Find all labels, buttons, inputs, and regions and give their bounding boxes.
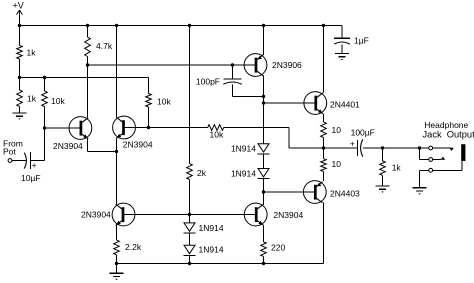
wire C1 up to Q1 base — [44, 128, 46, 161]
label C3 1uF — [354, 36, 369, 46]
label R1 1k — [27, 48, 37, 58]
terminal jack sleeve contact — [429, 168, 433, 172]
svg-text:10: 10 — [332, 125, 342, 135]
wire R10 to Q7 emitter — [323, 172, 325, 182]
wire Q2 emitter down — [116, 138, 118, 151]
node Q3/Q4 base junction — [188, 213, 191, 216]
wire Q6 base — [264, 102, 304, 104]
capacitor C3 1uF — [334, 38, 350, 53]
capacitor C4 100uF — [358, 139, 363, 156]
wire Q3 emitter down — [116, 225, 118, 240]
wire Q6 collector to rail — [323, 26, 325, 93]
wire output to R10 — [323, 148, 325, 159]
wire output line left — [289, 147, 357, 149]
svg-text:Jack Output: Jack Output — [423, 130, 474, 140]
wire Q5 emitter to rail — [263, 26, 265, 55]
wire second rail — [20, 77, 149, 79]
resistor R10 10 — [321, 159, 327, 172]
label R9 10 — [332, 125, 342, 135]
node rail2 junctions — [18, 76, 46, 79]
label D2 1N914 — [231, 168, 256, 178]
wire bottom rail — [117, 263, 324, 265]
wire Q4 collector up — [263, 192, 265, 204]
resistor R9 10 — [321, 122, 327, 138]
resistor R3 4.7k — [85, 37, 91, 56]
wire R5 to feedback node — [148, 107, 150, 128]
label R5 10k — [157, 97, 171, 107]
wire Q2 collector to rail — [116, 26, 118, 118]
wire D1 to D2 — [263, 154, 265, 169]
wire node A down to Q1 collector — [87, 65, 89, 118]
svg-text:+: + — [32, 161, 37, 170]
wire R11 to bottom rail — [263, 256, 265, 263]
label Q6 2N4401 — [330, 100, 360, 110]
svg-text:100pF: 100pF — [196, 77, 220, 87]
resistor R5 10k — [146, 94, 152, 108]
svg-text:10: 10 — [332, 159, 342, 169]
wire R4 to Q1 base node — [44, 107, 46, 129]
transistor Q2 2N3904 — [113, 116, 136, 139]
svg-text:2N3904: 2N3904 — [81, 210, 111, 220]
svg-text:Pot: Pot — [3, 147, 16, 157]
wire R12 to ground — [382, 175, 384, 186]
terminal jack tip contact — [429, 146, 433, 150]
svg-text:1N914: 1N914 — [199, 223, 224, 233]
svg-text:1N914: 1N914 — [199, 245, 224, 255]
svg-text:10µF: 10µF — [21, 173, 41, 183]
label From Pot — [3, 139, 23, 157]
node output junction — [322, 146, 325, 149]
wire load to R12 — [382, 148, 384, 161]
wire Q2 base feedback line — [125, 127, 290, 129]
node C2 junction — [262, 95, 265, 98]
wire feedback corner down — [288, 128, 290, 149]
svg-text:10k: 10k — [210, 130, 224, 140]
wire rail2 to R4 — [44, 78, 46, 92]
label R4 10k — [51, 96, 65, 106]
label D4 1N914 — [199, 245, 224, 255]
resistor R12 1k — [380, 161, 386, 176]
label C1 10uF — [21, 173, 41, 183]
diode D4 1N914 — [184, 245, 196, 255]
resistor R2 1k — [17, 90, 23, 107]
wire Q7 base — [264, 191, 304, 193]
label C2 100pF — [196, 77, 220, 87]
ground left divider — [13, 113, 27, 120]
wire R3 to node A — [87, 57, 89, 66]
wire R7 to bottom rail — [116, 255, 118, 264]
svg-text:2N4403: 2N4403 — [330, 189, 360, 199]
svg-text:+V: +V — [13, 1, 24, 11]
wire rail2 to R2 — [19, 78, 21, 91]
transistor Q1 2N3904 — [69, 117, 92, 140]
transistor Q7 2N4403 — [303, 181, 326, 204]
resistor R8 2k — [187, 164, 193, 180]
wire node A to Q5 base — [88, 64, 245, 66]
wire jack tip contact arm — [433, 147, 451, 149]
label R7 2.2k — [125, 242, 142, 252]
label C4 plus — [350, 140, 355, 149]
label R10 10 — [332, 159, 342, 169]
resistor R6 10k feedback — [208, 125, 224, 131]
terminal input — [8, 159, 12, 163]
node 1k load junction — [381, 146, 384, 149]
wire rail1 down to R8 — [189, 26, 191, 164]
label Q2 2N3904 — [123, 140, 153, 150]
svg-text:2N3904: 2N3904 — [53, 141, 83, 151]
svg-text:Headphone: Headphone — [424, 120, 468, 130]
diode D1 1N914 — [258, 144, 270, 154]
wire R2 to ground — [19, 107, 21, 113]
node emitter junction — [115, 150, 118, 153]
wire jack down to ring row — [419, 148, 421, 160]
jack tip spring arrow — [449, 148, 454, 151]
label R6 10k — [210, 130, 224, 140]
label Q1 2N3904 — [53, 141, 83, 151]
wire rail to C3 — [341, 26, 343, 39]
wire Q3 base line — [124, 214, 245, 216]
svg-text:2N3906: 2N3906 — [272, 60, 302, 70]
wire +V to R1 — [19, 26, 21, 46]
wire Q1 base — [45, 127, 77, 129]
wire input to C1 — [12, 160, 26, 162]
wire sleeve row left — [420, 169, 429, 171]
resistor R4 10k — [42, 91, 48, 107]
node Q1 base junction — [43, 126, 46, 129]
wire jack sleeve to body — [433, 161, 463, 170]
transistor Q5 2N3906 — [244, 54, 267, 77]
wire Q5 collector down — [263, 75, 265, 143]
svg-text:1k: 1k — [27, 94, 37, 104]
node Q7 base junction — [262, 190, 265, 193]
diode D3 1N914 — [184, 223, 196, 233]
wire Q1 emitter down — [87, 139, 89, 152]
svg-text:1k: 1k — [27, 48, 37, 58]
wire sleeve to ground — [419, 170, 421, 188]
resistor R7 2.2k — [114, 240, 120, 255]
svg-text:2.2k: 2.2k — [125, 242, 142, 252]
label D3 1N914 — [199, 223, 224, 233]
svg-text:220: 220 — [271, 243, 285, 253]
transistor Q3 2N3904 — [112, 203, 135, 226]
svg-text:100µF: 100µF — [351, 128, 375, 138]
svg-text:1N914: 1N914 — [231, 168, 256, 178]
wire jack ring contact arm — [433, 159, 441, 161]
svg-text:1µF: 1µF — [354, 36, 369, 46]
svg-text:2N3904: 2N3904 — [123, 140, 153, 150]
wire output line right — [363, 147, 429, 149]
label R8 2k — [197, 168, 207, 178]
resistor R11 220 — [261, 242, 267, 257]
svg-text:4.7k: 4.7k — [96, 41, 113, 51]
label Q5 2N3906 — [272, 60, 302, 70]
wire Q7 collector down — [323, 202, 325, 263]
node jack junction — [418, 146, 421, 149]
label R12 1k — [392, 163, 402, 173]
power +V arrow — [17, 10, 23, 26]
node Q2 base 10k junction — [147, 126, 150, 129]
node Q6 base junction — [262, 101, 265, 104]
wire Q6 emitter down — [323, 114, 325, 122]
node top rail junctions — [18, 24, 325, 27]
label C4 100uF — [351, 128, 375, 138]
label C1 plus — [32, 161, 37, 170]
svg-text:2k: 2k — [197, 168, 207, 178]
label D1 1N914 — [231, 144, 256, 154]
wire bottom rail to ground — [116, 264, 118, 274]
svg-text:1N914: 1N914 — [231, 144, 256, 154]
wire top supply rail — [20, 25, 343, 27]
wire rail to R3 — [87, 26, 89, 38]
wire D4 to bottom rail — [189, 255, 191, 263]
wire Q1 emitter to Q2 emitter — [88, 151, 117, 153]
label Q7 2N4403 — [330, 189, 360, 199]
svg-text:10k: 10k — [157, 97, 171, 107]
wire R8 to base node — [189, 180, 191, 215]
jack body — [461, 144, 465, 161]
node 100pF tap — [231, 63, 234, 66]
capacitor C1 10uF — [24, 152, 44, 169]
wire rail2 corner down — [148, 78, 150, 94]
ground R12 — [376, 186, 390, 193]
svg-text:1k: 1k — [392, 163, 402, 173]
terminal jack ring contact — [429, 158, 433, 162]
ground bottom rail — [110, 273, 124, 280]
ground C3 — [335, 54, 349, 61]
diode D2 1N914 — [258, 169, 270, 179]
label Q4 2N3904 — [273, 210, 303, 220]
label R3 4.7k — [96, 41, 113, 51]
ground jack — [413, 188, 427, 195]
wire base node to D3 — [189, 215, 191, 223]
node A Q1 collector junction — [86, 63, 89, 66]
svg-text:2N3904: 2N3904 — [273, 210, 303, 220]
capacitor C2 100pF — [223, 65, 263, 97]
wire R1 to rail2 — [19, 59, 21, 78]
wire D3 to D4 — [189, 233, 191, 245]
resistor R1 1k — [17, 45, 23, 59]
wire tail down to Q3 — [116, 152, 118, 205]
transistor Q6 2N4401 — [304, 92, 327, 115]
wire D2 to Q7 base node — [263, 179, 265, 205]
wire Q4 emitter down — [263, 225, 265, 242]
power +V label — [13, 1, 24, 11]
label Q3 2N3904 — [81, 210, 111, 220]
transistor Q4 2N3904 — [244, 203, 267, 226]
svg-text:10k: 10k — [51, 96, 65, 106]
node bottom rail junctions — [115, 262, 265, 265]
wire R9 to output — [323, 138, 325, 149]
label R2 1k — [27, 94, 37, 104]
jack ring spring arrow — [441, 157, 446, 160]
svg-text:2N4401: 2N4401 — [330, 100, 360, 110]
label R11 220 — [271, 243, 285, 253]
label Headphone Jack Output — [423, 120, 474, 140]
wire ring row left — [420, 159, 429, 161]
svg-text:+: + — [350, 140, 355, 149]
